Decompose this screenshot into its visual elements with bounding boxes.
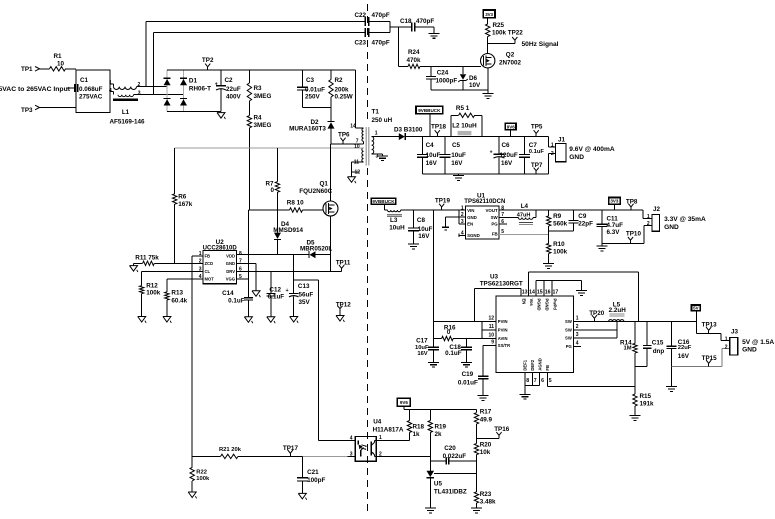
svg-text:R9: R9 (553, 213, 562, 220)
svg-text:C4: C4 (426, 142, 435, 149)
svg-text:R21 20k: R21 20k (219, 447, 242, 453)
svg-text:D1: D1 (189, 78, 198, 85)
svg-text:200k: 200k (335, 87, 350, 94)
svg-text:400V: 400V (226, 93, 242, 100)
svg-text:RH06-T: RH06-T (189, 86, 211, 93)
svg-text:167k: 167k (178, 201, 193, 208)
svg-text:SW: SW (565, 319, 572, 324)
svg-text:2: 2 (576, 324, 579, 330)
svg-text:11: 11 (489, 324, 495, 330)
svg-text:3: 3 (376, 154, 379, 160)
svg-text:0.1uF: 0.1uF (268, 294, 285, 301)
svg-text:TPS62130RGT: TPS62130RGT (480, 281, 523, 288)
svg-text:R3: R3 (254, 85, 263, 92)
svg-text:dnp: dnp (653, 348, 665, 355)
svg-text:R24: R24 (408, 49, 420, 56)
svg-text:4: 4 (576, 340, 579, 346)
svg-text:0: 0 (271, 187, 275, 194)
svg-text:C22: C22 (355, 12, 367, 19)
svg-text:10: 10 (488, 333, 494, 339)
svg-text:100k: 100k (196, 476, 210, 482)
svg-text:C5: C5 (452, 142, 461, 149)
svg-text:7: 7 (239, 258, 242, 264)
svg-text:120uF: 120uF (500, 152, 518, 159)
svg-text:TP7: TP7 (531, 162, 543, 169)
svg-text:35V: 35V (299, 299, 311, 306)
svg-text:60.4k: 60.4k (171, 298, 187, 305)
svg-text:470pF: 470pF (372, 40, 390, 47)
svg-text:9V6: 9V6 (507, 124, 516, 129)
svg-text:2: 2 (138, 82, 141, 88)
svg-text:D6: D6 (469, 75, 478, 82)
svg-text:R5 1: R5 1 (456, 105, 470, 112)
svg-text:TP13: TP13 (702, 321, 718, 328)
svg-text:AVIN: AVIN (498, 336, 508, 341)
svg-text:GND: GND (226, 261, 235, 266)
svg-text:4: 4 (350, 435, 353, 441)
svg-text:22pF: 22pF (578, 220, 593, 227)
svg-text:10uF: 10uF (426, 152, 441, 159)
svg-text:2N7002: 2N7002 (499, 60, 522, 67)
svg-text:R12: R12 (146, 282, 158, 289)
svg-text:FB: FB (545, 365, 550, 371)
svg-text:C23: C23 (355, 40, 367, 47)
svg-text:16V: 16V (417, 351, 427, 357)
svg-text:250 uH: 250 uH (372, 117, 393, 124)
svg-text:0.1uF: 0.1uF (529, 149, 545, 155)
svg-text:560k: 560k (553, 220, 568, 227)
svg-text:FB: FB (492, 232, 498, 237)
svg-text:R8 10: R8 10 (287, 200, 304, 207)
svg-text:TP15: TP15 (702, 355, 718, 362)
svg-text:12: 12 (488, 316, 494, 322)
svg-text:MURA160T3: MURA160T3 (289, 126, 326, 133)
svg-text:6: 6 (239, 267, 242, 273)
svg-text:R25: R25 (493, 22, 505, 29)
svg-text:UCC28610D: UCC28610D (203, 245, 238, 251)
svg-text:10k: 10k (480, 449, 491, 456)
svg-text:85VAC to 265VAC Input: 85VAC to 265VAC Input (0, 86, 71, 93)
svg-text:EN: EN (522, 299, 527, 305)
svg-text:L2 10uH: L2 10uH (452, 123, 477, 130)
svg-text:+: + (490, 150, 493, 156)
svg-text:1000pF: 1000pF (436, 78, 458, 85)
svg-text:TP11: TP11 (336, 260, 351, 267)
svg-text:3MEG: 3MEG (254, 93, 272, 100)
svg-text:0.1uF: 0.1uF (445, 350, 462, 357)
svg-text:0.01uF: 0.01uF (305, 87, 325, 94)
svg-text:D3 B3100: D3 B3100 (394, 127, 423, 134)
svg-text:VDD: VDD (226, 253, 235, 258)
svg-text:10: 10 (57, 61, 65, 68)
svg-text:TPS62110DCN: TPS62110DCN (464, 199, 505, 205)
svg-text:100k TP22: 100k TP22 (492, 30, 523, 37)
svg-text:1: 1 (551, 143, 554, 149)
svg-text:10V: 10V (469, 82, 481, 89)
svg-text:6: 6 (541, 378, 544, 384)
svg-text:250V: 250V (305, 94, 321, 101)
svg-text:1: 1 (461, 205, 464, 211)
svg-text:FQU2N60C: FQU2N60C (299, 188, 332, 195)
svg-text:3.3V @ 35mA: 3.3V @ 35mA (664, 216, 706, 223)
svg-text:5V: 5V (693, 306, 699, 311)
svg-text:4.7uF: 4.7uF (607, 222, 624, 229)
svg-text:R18: R18 (413, 423, 425, 430)
svg-text:CL: CL (205, 269, 211, 274)
svg-text:10uH: 10uH (389, 224, 405, 231)
svg-text:16V: 16V (426, 160, 438, 167)
svg-text:2: 2 (551, 151, 554, 157)
svg-text:1k: 1k (413, 431, 421, 438)
svg-text:TP8: TP8 (626, 198, 638, 205)
svg-text:5V @ 1.5A: 5V @ 1.5A (742, 339, 774, 346)
svg-text:12: 12 (354, 169, 360, 175)
svg-text:3.48k: 3.48k (480, 498, 496, 505)
svg-text:1: 1 (109, 80, 112, 86)
svg-text:R15: R15 (640, 393, 652, 400)
svg-text:C20: C20 (444, 445, 456, 452)
svg-text:TP19: TP19 (435, 198, 451, 205)
svg-text:GND: GND (742, 346, 757, 353)
svg-text:J1: J1 (558, 137, 566, 144)
svg-text:PG: PG (491, 222, 498, 227)
svg-text:DEF2: DEF2 (530, 359, 535, 370)
svg-text:5: 5 (549, 378, 552, 384)
svg-text:3: 3 (138, 90, 141, 96)
svg-text:C19: C19 (462, 371, 474, 378)
svg-text:C18: C18 (400, 18, 412, 25)
svg-text:TL431IDBZ: TL431IDBZ (434, 488, 467, 495)
svg-text:PwPd: PwPd (552, 299, 557, 311)
svg-text:VOUT: VOUT (485, 208, 498, 213)
svg-text:MOT: MOT (205, 277, 215, 282)
svg-text:ZCD: ZCD (205, 261, 214, 266)
svg-text:C6: C6 (502, 142, 511, 149)
svg-text:7: 7 (534, 378, 537, 384)
svg-text:C24: C24 (437, 70, 449, 77)
svg-text:14: 14 (529, 289, 535, 295)
svg-text:470pF: 470pF (372, 12, 390, 19)
svg-text:Q2: Q2 (506, 51, 515, 58)
svg-text:47uH: 47uH (517, 213, 531, 219)
svg-text:PGND: PGND (545, 299, 550, 311)
svg-text:C21: C21 (307, 469, 319, 476)
svg-text:22uF: 22uF (678, 345, 692, 351)
svg-text:U4: U4 (373, 418, 382, 425)
svg-text:TP18: TP18 (431, 124, 447, 131)
svg-text:PVIN: PVIN (498, 327, 508, 332)
svg-text:191k: 191k (640, 401, 655, 408)
svg-text:1: 1 (725, 337, 728, 343)
svg-text:C17: C17 (416, 337, 428, 344)
svg-text:10uF: 10uF (451, 152, 466, 159)
svg-text:2: 2 (379, 451, 382, 457)
svg-text:TP5: TP5 (531, 124, 543, 131)
svg-text:C2: C2 (225, 77, 234, 84)
svg-text:R20: R20 (480, 442, 492, 449)
svg-text:16V: 16V (451, 160, 463, 167)
svg-text:C15: C15 (652, 340, 664, 347)
svg-text:TP20: TP20 (589, 310, 605, 317)
svg-text:TP1: TP1 (21, 66, 33, 73)
svg-text:C14: C14 (222, 290, 234, 297)
svg-text:EN: EN (467, 222, 473, 227)
svg-text:SW: SW (491, 215, 499, 220)
svg-text:C7: C7 (529, 142, 538, 149)
svg-text:1M: 1M (624, 346, 632, 352)
svg-text:1: 1 (379, 435, 382, 441)
svg-text:H11A817A: H11A817A (373, 427, 404, 434)
svg-text:9VBBUCK: 9VBBUCK (372, 199, 395, 204)
svg-text:17: 17 (553, 289, 559, 295)
svg-text:R22: R22 (196, 469, 207, 475)
svg-text:DRV: DRV (226, 269, 235, 274)
svg-text:FB: FB (205, 253, 211, 258)
svg-text:2: 2 (725, 344, 728, 350)
svg-text:22uF: 22uF (226, 86, 241, 93)
svg-text:1: 1 (375, 131, 378, 137)
svg-text:Vos: Vos (529, 299, 534, 307)
svg-text:Q1: Q1 (320, 180, 329, 187)
svg-text:TP16: TP16 (494, 426, 510, 433)
svg-text:9VBBUCK: 9VBBUCK (418, 108, 441, 113)
svg-text:C9: C9 (578, 213, 587, 220)
svg-text:PVIN: PVIN (498, 319, 508, 324)
svg-text:SGND: SGND (467, 233, 480, 238)
svg-text:+: + (286, 288, 289, 294)
svg-text:16: 16 (545, 289, 551, 295)
svg-text:4: 4 (109, 88, 112, 94)
svg-text:+: + (215, 81, 218, 87)
svg-text:MMSD914: MMSD914 (273, 227, 303, 234)
svg-text:1: 1 (576, 316, 579, 322)
svg-text:T1: T1 (372, 108, 380, 115)
svg-text:R4: R4 (254, 115, 263, 122)
svg-text:L1: L1 (122, 109, 130, 116)
svg-text:DEF1: DEF1 (523, 359, 528, 370)
svg-text:1: 1 (647, 214, 650, 220)
svg-text:2k: 2k (435, 431, 443, 438)
svg-text:R6: R6 (178, 193, 187, 200)
svg-text:AGND: AGND (538, 358, 543, 370)
svg-text:C3: C3 (306, 77, 315, 84)
svg-text:J3: J3 (731, 329, 739, 336)
svg-text:C8: C8 (417, 217, 426, 224)
svg-text:PGND: PGND (537, 299, 542, 311)
svg-text:R23: R23 (480, 491, 492, 498)
svg-text:3V3: 3V3 (610, 199, 619, 204)
svg-text:TP10: TP10 (626, 230, 642, 237)
svg-text:15: 15 (537, 289, 543, 295)
svg-text:TP3: TP3 (21, 107, 33, 114)
svg-text:10: 10 (354, 144, 360, 150)
svg-text:SW: SW (565, 327, 572, 332)
svg-text:275VAC: 275VAC (79, 94, 103, 101)
svg-text:10uF: 10uF (415, 345, 429, 351)
svg-text:PG: PG (566, 344, 572, 349)
svg-text:VIN: VIN (467, 208, 474, 213)
svg-text:R1: R1 (53, 53, 62, 60)
svg-text:C13: C13 (298, 283, 310, 290)
svg-text:R10: R10 (553, 241, 565, 248)
svg-text:100k: 100k (146, 290, 161, 297)
svg-text:C12: C12 (269, 286, 281, 293)
svg-text:R2: R2 (335, 77, 344, 84)
svg-text:J2: J2 (653, 206, 661, 213)
svg-text:16V: 16V (501, 160, 513, 167)
svg-text:VGG: VGG (226, 277, 235, 282)
svg-text:SW: SW (565, 336, 572, 341)
svg-text:3V3: 3V3 (485, 12, 493, 17)
svg-text:16V: 16V (418, 233, 430, 240)
svg-text:14: 14 (350, 123, 356, 129)
svg-text:100pF: 100pF (307, 477, 325, 484)
svg-text:U5: U5 (434, 480, 443, 487)
svg-text:TP2: TP2 (202, 57, 214, 64)
svg-text:9.6V @ 400mA: 9.6V @ 400mA (569, 146, 615, 153)
svg-text:TP12: TP12 (336, 301, 352, 308)
svg-text:0.01uF: 0.01uF (458, 379, 478, 386)
svg-text:U3: U3 (490, 273, 499, 280)
svg-text:SS/TR: SS/TR (498, 343, 510, 348)
svg-text:9V6: 9V6 (400, 400, 409, 405)
svg-text:470pF: 470pF (416, 18, 434, 25)
svg-text:TP6: TP6 (338, 132, 350, 139)
svg-text:11: 11 (354, 159, 360, 165)
svg-text:R19: R19 (435, 423, 447, 430)
svg-text:MBR0520L: MBR0520L (300, 246, 332, 253)
svg-text:470k: 470k (407, 57, 422, 64)
svg-text:0: 0 (447, 329, 451, 336)
svg-text:GND: GND (467, 215, 477, 220)
svg-text:L4: L4 (521, 203, 529, 210)
svg-text:0.25W: 0.25W (335, 94, 353, 101)
svg-text:2: 2 (647, 221, 650, 227)
svg-text:AF5169-146: AF5169-146 (109, 119, 145, 126)
svg-text:0.068uF: 0.068uF (79, 86, 103, 93)
svg-text:L3: L3 (390, 217, 398, 224)
svg-text:0.022uF: 0.022uF (443, 453, 467, 460)
svg-text:GND: GND (664, 224, 679, 231)
svg-text:5: 5 (239, 274, 242, 280)
svg-text:GND: GND (569, 154, 584, 161)
svg-text:0.1uF: 0.1uF (228, 298, 245, 305)
svg-text:8: 8 (239, 251, 242, 257)
svg-text:R13: R13 (171, 290, 183, 297)
svg-text:49.9: 49.9 (480, 416, 493, 423)
svg-text:2.2uH: 2.2uH (609, 307, 627, 314)
svg-text:100k: 100k (553, 249, 568, 256)
svg-text:TP17: TP17 (283, 445, 299, 452)
svg-text:8: 8 (526, 378, 529, 384)
svg-text:3: 3 (576, 332, 579, 338)
svg-text:9: 9 (491, 339, 494, 345)
svg-text:R17: R17 (480, 409, 492, 416)
svg-text:13: 13 (522, 289, 528, 295)
svg-text:16V: 16V (678, 353, 690, 360)
svg-text:56uF: 56uF (299, 291, 314, 298)
svg-text:50Hz Signal: 50Hz Signal (522, 41, 559, 48)
svg-text:6.3V: 6.3V (607, 229, 621, 236)
svg-text:3MEG: 3MEG (254, 122, 272, 129)
svg-text:C1: C1 (80, 77, 89, 84)
svg-text:R11 75k: R11 75k (135, 254, 159, 261)
